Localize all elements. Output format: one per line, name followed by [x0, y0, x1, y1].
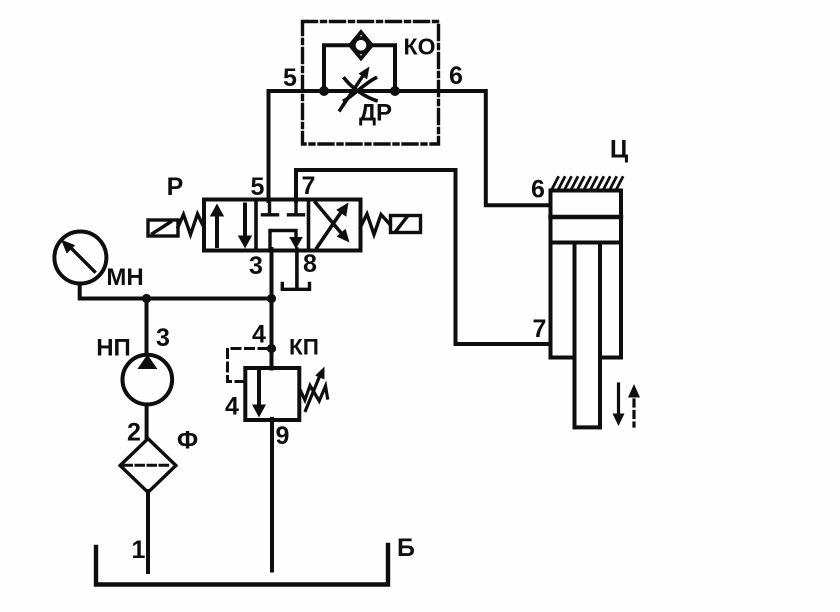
- svg-text:9: 9: [276, 422, 290, 450]
- wire: pump to filter: [145, 406, 149, 439]
- enclosure box for KO/DR (dash-dot): [303, 22, 439, 145]
- svg-text:2: 2: [127, 419, 141, 447]
- motion arrow: solid down: [613, 384, 625, 426]
- svg-text:Ц: Ц: [610, 136, 629, 164]
- wire: relief valve KP down to tank: [270, 419, 274, 571]
- junction node (pressure line / port 3 line): [267, 294, 276, 303]
- wire: valve port 5 riser + main line to node 6 drop + into cylinder top port: [269, 91, 549, 205]
- svg-text:НП: НП: [96, 335, 131, 362]
- valve R right position: crossed arrows: [316, 203, 350, 248]
- motion arrow: dashed up: [628, 384, 640, 426]
- svg-text:ДР: ДР: [359, 100, 392, 127]
- valve R right return spring: [361, 214, 391, 235]
- cylinder C: mounting hatching: [552, 178, 623, 191]
- wire: check valve bypass loop: [324, 45, 395, 91]
- valve R left position: two parallel arrows: [210, 204, 252, 249]
- svg-text:5: 5: [251, 173, 265, 201]
- cylinder C: body: [551, 191, 622, 358]
- node 4 junction (pilot take-off): [267, 344, 276, 353]
- relief valve KP: body: [245, 368, 299, 420]
- filter F (diamond with dashed element): [120, 439, 176, 493]
- valve R right solenoid: [391, 216, 421, 233]
- drain tank symbol at valve port 8: [282, 284, 309, 290]
- svg-text:4: 4: [252, 321, 266, 349]
- svg-text:7: 7: [533, 315, 547, 343]
- svg-text:5: 5: [283, 64, 297, 92]
- relief valve KP: flow arrow: [252, 370, 266, 418]
- relief valve KP: adjustment spring with arrow: [300, 367, 328, 411]
- svg-text:Б: Б: [397, 534, 415, 562]
- directional valve R: body with three positions: [204, 200, 361, 251]
- svg-text:3: 3: [249, 252, 263, 280]
- svg-text:6: 6: [449, 62, 463, 90]
- svg-text:МН: МН: [106, 264, 143, 291]
- check valve KO (seat diamond + ball): [350, 32, 372, 59]
- svg-text:КП: КП: [289, 335, 319, 360]
- wire: valve port 8 stub into drain symbol: [295, 249, 299, 287]
- pressure gauge MN: [54, 232, 106, 284]
- svg-text:7: 7: [302, 172, 316, 200]
- throttle DR (two crossed arcs + adjustment arrow): [340, 67, 376, 111]
- svg-text:3: 3: [156, 324, 170, 352]
- junction node (left, on main line): [319, 86, 329, 96]
- wire: gauge MN stem and pressure branch line: [80, 284, 272, 299]
- svg-text:Ф: Ф: [177, 427, 198, 455]
- valve R left solenoid: [148, 220, 178, 236]
- wire: filter down into tank: [146, 491, 150, 572]
- junction node (gauge branch / pump): [142, 294, 151, 303]
- svg-text:6: 6: [531, 176, 545, 204]
- wire: valve port 3 down to relief valve KP: [270, 249, 274, 369]
- svg-text:КО: КО: [404, 34, 436, 60]
- svg-text:1: 1: [132, 536, 146, 564]
- svg-text:8: 8: [303, 250, 317, 278]
- relief valve KP: pilot line (dashed): [228, 349, 268, 382]
- tank B: [96, 545, 388, 585]
- wire: valve port 7 up, across and down to cylinder bottom port: [296, 170, 549, 344]
- cylinder C: piston rod: [575, 244, 601, 427]
- svg-text:Р: Р: [167, 173, 184, 201]
- svg-text:4: 4: [225, 393, 239, 421]
- valve R left return spring: [178, 214, 204, 235]
- junction node (right, on main line): [390, 86, 400, 96]
- pump NP (circle with up triangle): [123, 355, 173, 405]
- valve R middle position: blocked ports 5,7 and 3-to-8 path: [263, 201, 304, 250]
- wire: junction down to pump NP: [145, 299, 149, 355]
